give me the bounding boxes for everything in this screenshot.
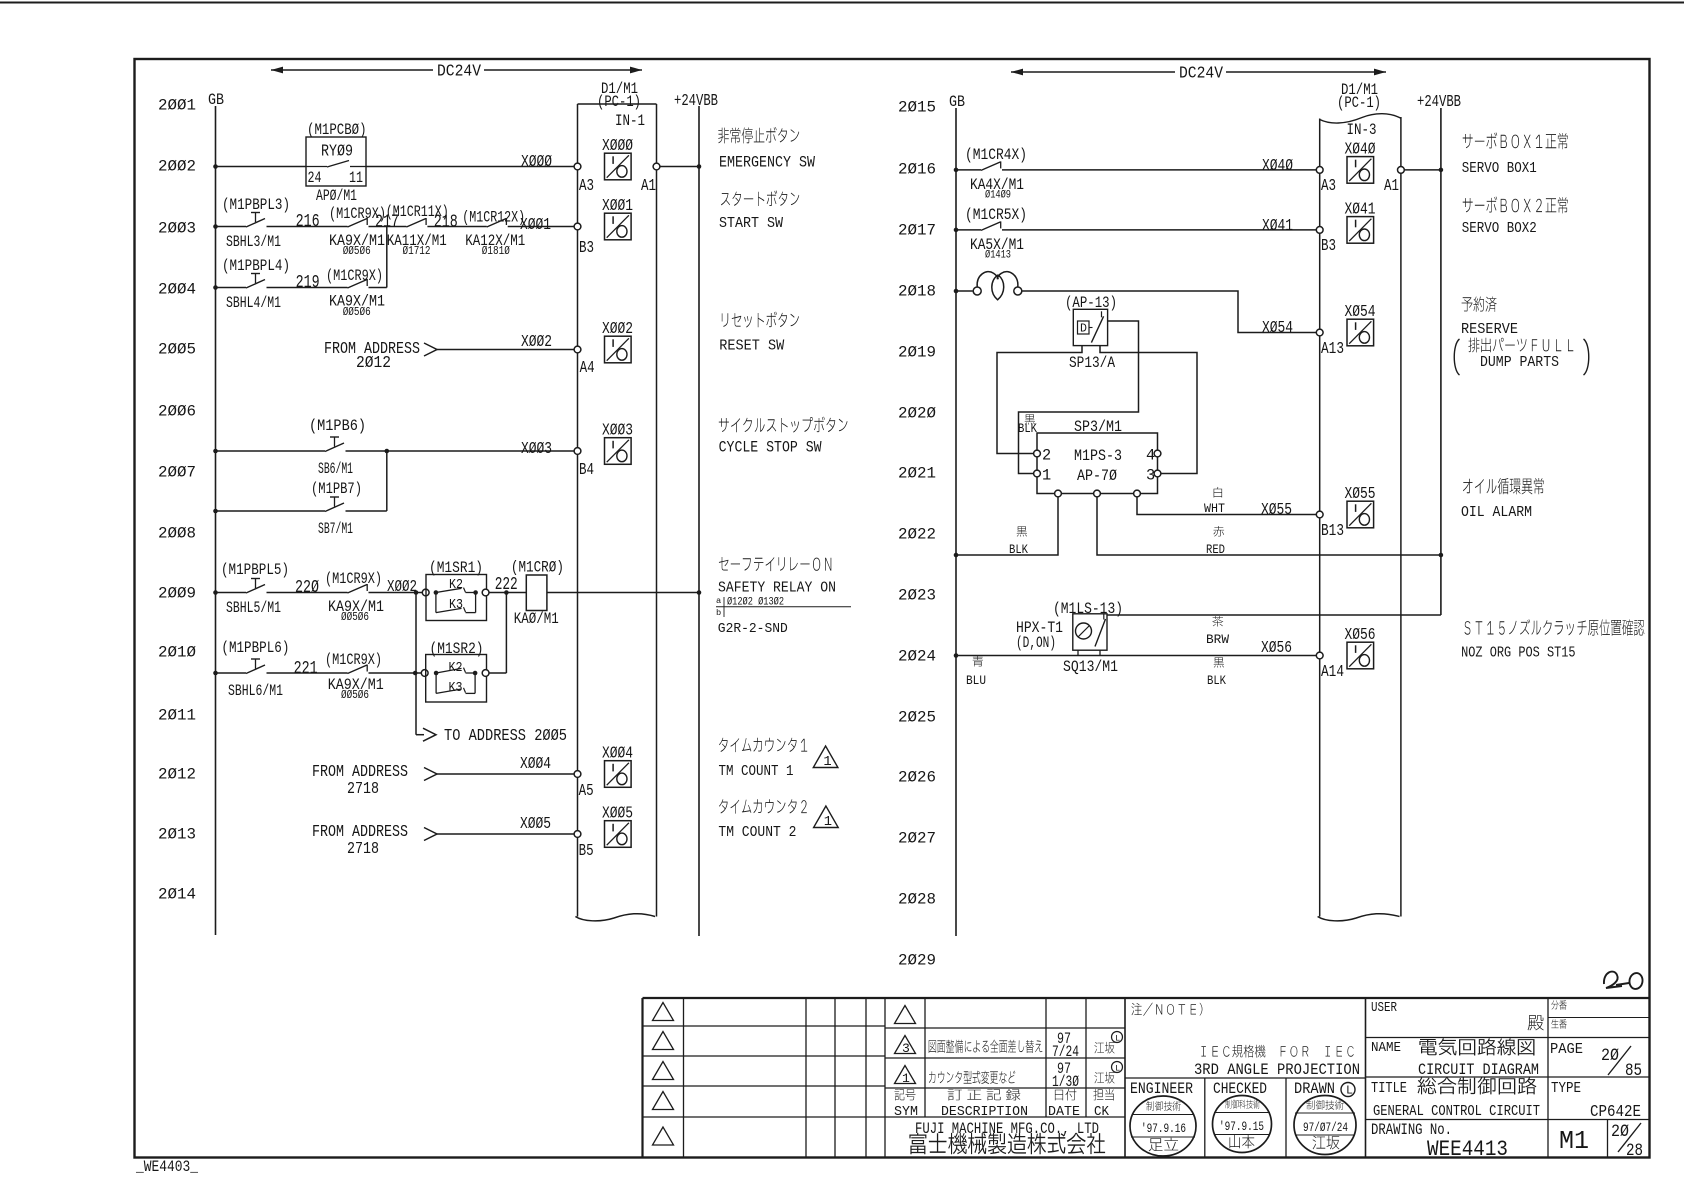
wire M1PS-3 bottom1 to GB [956,497,1058,555]
label cycle stop button jp [719,417,848,433]
svg-text:(M1CR5X): (M1CR5X) [965,206,1027,224]
svg-text:(D,ON): (D,ON) [1016,634,1056,652]
page number 20/85 [1601,1046,1642,1081]
svg-text:(M1CR9X): (M1CR9X) [325,651,382,669]
svg-text:GENERAL CONTROL CIRCUIT: GENERAL CONTROL CIRCUIT [1373,1104,1540,1120]
svg-text:RYØ9: RYØ9 [321,143,353,162]
svg-text:'97.9.16: '97.9.16 [1141,1121,1186,1136]
label reserve jp [1462,296,1497,312]
svg-text:B3: B3 [1321,237,1336,256]
svg-text:BLK: BLK [1009,542,1028,557]
wire rung 2007 [216,450,326,452]
arrow from address 2012 [424,343,437,356]
svg-text:2ØØ8: 2ØØ8 [158,525,196,543]
wire M1PS-3 bottom3 to X055 [1137,497,1320,515]
svg-text:2Ø29: 2Ø29 [898,952,936,970]
company name FUJI MACHINE [909,1120,1105,1154]
contact KA12X/M1 [487,218,507,227]
wire M1SR1 to coil [489,592,526,594]
svg-text:XØ4Ø: XØ4Ø [1262,157,1293,176]
safety relay block M1SR2 [421,655,489,703]
svg-text:(M1PB6): (M1PB6) [309,417,366,435]
svg-text:XØ41: XØ41 [1262,217,1293,236]
svg-text:1: 1 [823,755,831,770]
svg-text:216: 216 [296,210,320,232]
svg-text:A4: A4 [580,359,595,378]
svg-text:B13: B13 [1321,522,1344,541]
arrow from address rung2013 [424,828,437,841]
node A13 X054 [1316,329,1323,336]
svg-text:IN-1: IN-1 [615,112,645,130]
note FROM ADDRESS 2718 rung2012 [312,763,408,799]
node A4 X002 [574,346,581,353]
wire to X040 [1002,169,1320,171]
svg-text:NOZ ORG POS ST15: NOZ ORG POS ST15 [1461,646,1576,662]
node A14 X056 [1316,652,1323,659]
svg-text:XØØ2: XØØ2 [521,333,552,352]
label BLK wire jp 2024 [1214,657,1224,667]
svg-text:A3: A3 [579,177,594,196]
svg-text:(M1CR4X): (M1CR4X) [965,146,1027,164]
svg-text:(M1PBPL5): (M1PBPL5) [221,561,289,579]
note 01202 01302 [716,596,851,618]
svg-text:A1: A1 [641,177,656,196]
label st15 nozzle clutch jp [1465,619,1645,636]
svg-text:(M1SR2): (M1SR2) [430,640,484,658]
wire [369,226,407,228]
svg-text:2Ø12: 2Ø12 [158,766,196,784]
wire [267,226,348,228]
signature boxes [1205,1078,1286,1158]
contact KA9X/M1 rung2009 [348,584,368,593]
label BRW wire jp [1212,616,1223,627]
label HPX-T1 (D.ON) [1016,619,1063,652]
svg-text:2ØØ4: 2ØØ4 [158,281,196,299]
label KA11X/M1 01712 [387,232,447,258]
relay coil KA0/M1 [526,575,547,611]
svg-text:DESCRIPTION: DESCRIPTION [941,1105,1028,1120]
svg-text:RESERVE: RESERVE [1461,322,1518,338]
svg-text:L: L [1346,1085,1353,1098]
wire SB7 to junction [346,510,387,512]
wire A1 to +24VBB right [1404,169,1441,171]
svg-text:2ØØ2: 2ØØ2 [158,158,196,176]
svg-text:2Ø24: 2Ø24 [898,648,936,666]
svg-text:SP13/A: SP13/A [1069,354,1115,372]
connector block IN-1 [575,104,656,921]
svg-text:WHT: WHT [1204,501,1225,516]
svg-text:XØØØ: XØØØ [602,137,633,156]
svg-text:2Ø: 2Ø [1601,1047,1619,1066]
svg-text:SB7/M1: SB7/M1 [318,520,353,538]
label RED wire jp 2022 [1213,526,1224,537]
svg-text:22Ø: 22Ø [295,576,319,598]
svg-text:DC24V: DC24V [437,63,481,82]
bus +24VBB right [1440,108,1442,615]
wire to X041 [1002,229,1320,231]
svg-text:B5: B5 [579,842,594,861]
svg-text:+24VBB: +24VBB [1417,93,1461,112]
svg-text:SB6/M1: SB6/M1 [318,460,353,478]
pushbutton SB7/M1 [325,497,344,512]
warning triangle 1b [814,806,839,828]
svg-text:2Ø21: 2Ø21 [898,465,936,483]
svg-text:2Ø18: 2Ø18 [898,283,936,301]
pushbutton SBHL3/M1 [246,213,265,228]
stamp L drawn [1341,1083,1355,1098]
pressure switch unit M1PS-3 AP-70 [1034,433,1161,497]
svg-text:2ØØ9: 2ØØ9 [158,585,196,603]
svg-text:XØØ1: XØØ1 [602,197,633,216]
svg-text:IN-3: IN-3 [1347,121,1377,139]
svg-text:XØØ5: XØØ5 [602,805,633,824]
node A5 X004 [574,771,581,778]
wire RY09 to IN-1 X000 [366,166,578,168]
wire junction vertical SB7 [386,451,388,511]
svg-text:2Ø12: 2Ø12 [356,354,391,373]
I/O box XØ54 [1345,303,1376,346]
wire M1PS-3 bottom2 to +24VBB [1097,497,1441,555]
label KA9X/M1 00506 rung2010 [328,676,384,702]
handwritten page mark 2-0 [1604,972,1622,988]
svg-text:RED: RED [1206,542,1225,557]
label KA9X/M1 00506 rung2004 [329,293,385,320]
rung numbers 2015-2029 [898,99,936,970]
svg-text:1: 1 [902,1071,910,1086]
revision row blank triangle [895,1006,916,1024]
svg-text:2ØØ1: 2ØØ1 [158,97,196,115]
wire [267,592,348,594]
wire coil to +24VBB [547,592,699,594]
svg-text:A1: A1 [1384,177,1399,196]
revision table middle [885,998,1125,1158]
I/O box XØ41 [1345,200,1376,243]
svg-text:2Ø16: 2Ø16 [898,161,936,179]
svg-text:CYCLE STOP SW: CYCLE STOP SW [719,438,823,456]
svg-text:1/3Ø: 1/3Ø [1052,1073,1079,1091]
svg-text:B4: B4 [579,461,594,480]
node A3 X040 [1316,167,1323,174]
wire A1 to +24VBB [660,166,699,168]
svg-text:2Ø2Ø: 2Ø2Ø [898,405,936,423]
svg-text:FUJI MACHINE MFG.CO., LTD: FUJI MACHINE MFG.CO., LTD [915,1120,1099,1138]
wire [267,672,348,674]
I/O box XØ55 [1345,485,1376,528]
title block right section [1366,998,1651,1158]
scan edge line top [0,2,1684,4]
wire M1LS-13 top to +24VBB corner [1107,614,1441,616]
svg-text:2ØØ3: 2ØØ3 [158,220,196,238]
svg-text:Ø1413: Ø1413 [985,250,1011,262]
note text [1132,1003,1361,1079]
svg-text:L: L [1115,1034,1120,1044]
svg-text:XØØ3: XØØ3 [602,422,633,441]
wire [267,287,348,289]
svg-text:TITLE: TITLE [1371,1081,1407,1097]
svg-text:(PC-1): (PC-1) [1337,94,1381,112]
node B13 X055 [1316,511,1323,518]
svg-text:2Ø23: 2Ø23 [898,587,936,605]
svg-text:XØ41: XØ41 [1345,200,1376,219]
svg-text:XØ4Ø: XØ4Ø [1345,140,1376,159]
svg-text:M1PS-3: M1PS-3 [1074,447,1122,465]
svg-text:A13: A13 [1321,340,1344,359]
svg-text:2Ø28: 2Ø28 [898,891,936,909]
svg-text:2718: 2718 [347,780,379,799]
svg-text:4: 4 [1146,447,1155,465]
svg-text:WEE4413: WEE4413 [1427,1136,1508,1162]
svg-text:Ø181Ø: Ø181Ø [482,245,510,258]
I/O box XØ56 [1345,626,1376,669]
stamp checked [1213,1096,1272,1153]
svg-text:2Ø14: 2Ø14 [158,886,196,904]
contact KA11X/M1 [406,218,426,227]
svg-text:1: 1 [824,815,832,830]
svg-text:XØØ4: XØØ4 [602,745,633,764]
svg-text:(M1CR9X): (M1CR9X) [326,267,383,285]
svg-text:219: 219 [296,271,320,293]
svg-text:G2R-2-SND: G2R-2-SND [718,622,788,637]
label start button jp [721,190,799,206]
label safety relay on jp [719,557,831,571]
I/O box XØ4Ø [1345,140,1376,183]
svg-text:DUMP PARTS: DUMP PARTS [1480,355,1559,371]
svg-text:218: 218 [434,211,458,233]
label WHT wire jp [1214,487,1223,498]
svg-text:BLK: BLK [1018,421,1037,436]
contact KA9X/M1 rung2004 [348,279,368,288]
svg-text:B3: B3 [579,239,594,258]
svg-text:XØØØ: XØØØ [521,153,552,172]
wire rung 2010 [216,672,247,674]
svg-text:2Ø1Ø: 2Ø1Ø [158,644,196,662]
stamp engineer [1130,1096,1196,1156]
junction rung2010 [413,671,418,676]
pushbutton SBHL5/M1 [246,579,265,594]
svg-text:A5: A5 [579,782,594,801]
svg-text:AP-7Ø: AP-7Ø [1077,467,1117,485]
I/O box XØØ4 [602,745,633,788]
svg-text:2Ø27: 2Ø27 [898,830,936,848]
wire to X001 [508,226,578,228]
svg-text:A14: A14 [1321,663,1344,682]
connector block IN-3 [1318,114,1401,921]
svg-text:2Ø26: 2Ø26 [898,769,936,787]
limit switch M1LS-13 SQ13/M1 [1073,614,1107,656]
svg-text:CIRCUIT DIAGRAM: CIRCUIT DIAGRAM [1418,1061,1539,1079]
svg-text:XØ56: XØ56 [1261,639,1292,658]
svg-text:2Ø19: 2Ø19 [898,344,936,362]
junction X002 [414,590,419,595]
label KA4X/M1 01409 [970,176,1024,202]
bus +24VBB left [698,106,700,936]
contact KA4X/M1 [981,161,1001,170]
wire rung 2003 [216,226,247,228]
svg-text:DC24V: DC24V [1179,65,1223,84]
contact KA5X/M1 [981,221,1001,230]
DC24V span arrow left [271,63,642,82]
relay contact box RY09 AP0/M1 [306,137,366,187]
I/O box XØØ3 [602,422,633,465]
svg-text:2Ø: 2Ø [1611,1123,1629,1142]
svg-text:K2: K2 [449,578,463,593]
svg-text:XØ54: XØ54 [1345,303,1376,322]
svg-text:CP642E: CP642E [1590,1103,1641,1122]
svg-text:D: D [1080,323,1087,336]
note FROM ADDRESS 2012 [324,340,420,373]
svg-text:OIL ALARM: OIL ALARM [1461,505,1532,521]
svg-text:RESET SW: RESET SW [719,338,784,354]
svg-text:(M1CRØ): (M1CRØ) [511,559,564,577]
svg-text:M1: M1 [1559,1126,1589,1156]
wire AP-13 right stub to M1PS-3 pin3 [1100,346,1197,474]
svg-text:SAFETY RELAY ON: SAFETY RELAY ON [718,581,836,597]
svg-text:b: b [716,608,721,618]
svg-text:a: a [716,596,721,606]
svg-text:85: 85 [1625,1062,1642,1081]
label D1/M1 (PC-1) left [597,80,641,111]
svg-text:2Ø13: 2Ø13 [158,826,196,844]
label dump parts full jp [1454,338,1589,375]
title name jp [1419,1038,1534,1055]
revision row 3 [895,1030,1123,1061]
wire rung 2012 [437,773,578,775]
I/O box XØØØ [602,137,633,180]
pressure switch AP-13 SP13/A [1073,309,1107,345]
svg-text:ØØ5Ø6: ØØ5Ø6 [343,245,371,258]
I/O box XØØ1 [602,197,633,240]
arrow to address 2005 [423,728,436,741]
DC24V span arrow right [1011,65,1386,84]
pushbutton SBHL6/M1 [246,659,265,674]
svg-text:ØØ5Ø6: ØØ5Ø6 [343,306,371,319]
node A1 right [1398,167,1405,174]
connector plug symbol [973,272,1022,300]
wire M1SR2 up to 222 [489,672,506,674]
title block revision table left [643,998,1126,1158]
node A3 X000 [574,163,581,170]
svg-text:2ØØ7: 2ØØ7 [158,464,196,482]
wire to X002 node [369,592,426,594]
svg-text:TM COUNT 1: TM COUNT 1 [719,764,794,780]
svg-text:221: 221 [294,657,318,679]
wire rung 2004 [216,287,247,289]
safety relay block M1SR1 [422,575,489,621]
svg-text:2Ø15: 2Ø15 [898,99,936,117]
svg-text:KAØ/M1: KAØ/M1 [514,610,559,628]
wire to address 2005 vertical [415,593,417,735]
contact KA9X/M1 rung2010 [348,665,368,674]
svg-text:_WE4403_: _WE4403_ [135,1158,199,1176]
label KA12X/M1 01810 [465,232,525,258]
svg-text:XØØ5: XØØ5 [520,815,551,834]
svg-text:EMERGENCY SW: EMERGENCY SW [719,153,816,171]
wire rung 2009 [216,592,247,594]
wire AP-13 left stub to M1PS-3 pin2 [997,346,1082,454]
svg-text:NAME: NAME [1371,1041,1401,1056]
svg-text:ØØ5Ø6: ØØ5Ø6 [341,611,369,624]
svg-text:3RD ANGLE PROJECTION: 3RD ANGLE PROJECTION [1194,1061,1360,1079]
svg-text:SBHL5/M1: SBHL5/M1 [226,599,281,617]
wire rung 2002 bus to relay RY09 [216,166,307,168]
svg-text:(M1CR9X): (M1CR9X) [325,570,382,588]
note box [1125,998,1366,1158]
svg-text:TO ADDRESS 2ØØ5: TO ADDRESS 2ØØ5 [444,727,567,746]
svg-text:Ø1712: Ø1712 [403,245,431,258]
label BLK wire jp 2020 [1025,414,1035,424]
svg-text:ØØ5Ø6: ØØ5Ø6 [341,689,369,702]
title jp [1418,1077,1537,1094]
label KA9X/M1 00506 [329,232,385,258]
svg-text:SBHL4/M1: SBHL4/M1 [226,294,281,312]
svg-text:GB: GB [949,93,965,111]
wire to M1SR2 [369,672,425,674]
revision triangles left column [653,1003,674,1146]
svg-text:24: 24 [308,169,322,187]
wire plug to X054 step [1021,291,1320,333]
label seiban jp [1551,1019,1566,1028]
note FROM ADDRESS 2718 rung2013 [312,823,408,859]
svg-text:CK: CK [1094,1105,1110,1120]
svg-text:DATE: DATE [1048,1105,1080,1120]
wire junction vertical 217 [386,227,388,288]
label BLK wire jp 2022 [1017,526,1027,536]
svg-text:3: 3 [902,1041,910,1056]
wire rung 2018 [956,290,973,292]
warning triangle 1a [813,746,838,768]
contact KA9X/M1 rung2003 [348,218,368,227]
junction 222 [504,590,509,595]
svg-text:BLK: BLK [1207,673,1226,688]
label servo box1 jp [1463,132,1568,149]
revision header row [894,1089,1114,1120]
svg-text:USER: USER [1371,1001,1397,1016]
wire rung 2016 [956,169,981,171]
svg-text:11: 11 [349,169,363,187]
label time counter2 jp [719,799,807,813]
node B4 X003 [574,448,581,455]
svg-text:2Ø17: 2Ø17 [898,222,936,240]
svg-text:3: 3 [1146,467,1155,485]
node B3 X041 [1316,227,1323,234]
svg-text:XØØ2: XØØ2 [602,320,633,339]
svg-text:A3: A3 [1321,177,1336,196]
label time counter1 jp [719,738,807,752]
wire rung 2024 [956,655,1320,657]
svg-text:TM COUNT 2: TM COUNT 2 [718,825,796,841]
label tono jp [1528,1015,1544,1030]
svg-text:(PC-1): (PC-1) [597,93,641,111]
pushbutton SBHL4/M1 [246,274,265,289]
bus GB left [215,106,217,935]
svg-text:(M1PB7): (M1PB7) [311,480,362,498]
svg-text:APØ/M1: APØ/M1 [316,187,357,205]
svg-text:97/Ø7/24: 97/Ø7/24 [1303,1120,1348,1135]
label KA5X/M1 01413 [970,236,1024,262]
svg-text:XØ54: XØ54 [1262,319,1293,338]
svg-text:L: L [1115,1064,1120,1074]
svg-text:XØØ1: XØØ1 [520,216,551,235]
svg-text:PAGE: PAGE [1550,1042,1583,1058]
svg-text:2ØØ5: 2ØØ5 [158,341,196,359]
label D1/M1 (PC-1) right [1337,81,1381,112]
revision row 1 [895,1060,1123,1091]
label oil alarm jp [1463,478,1544,495]
svg-text:'97.9.15: '97.9.15 [1219,1119,1264,1134]
label bunban jp [1551,1000,1566,1010]
label BLU wire jp [973,656,983,667]
node B3 X001 [574,223,581,230]
